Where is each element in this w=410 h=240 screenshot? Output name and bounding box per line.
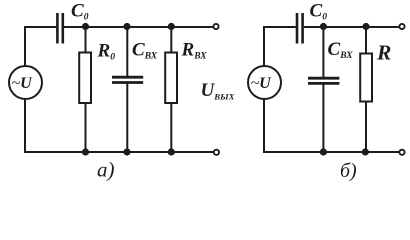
capacitor Cvx (right circuit): [308, 78, 339, 83]
wire: R branch bottom (right circuit): [365, 102, 367, 153]
node: junction top of R (right circuit): [362, 23, 369, 30]
wire: top wire left segment (source to C0): [24, 26, 57, 28]
terminal: top output (left circuit): [213, 24, 218, 29]
wire: top wire from C0 to top output terminal (right circuit): [304, 26, 399, 28]
wire: R branch top (right circuit): [365, 27, 367, 54]
wire: Cvx branch bottom (right circuit): [322, 84, 324, 152]
wire: Cvx branch top: [126, 27, 128, 78]
node: junction top of Cvx: [123, 23, 130, 30]
wire: Cvx branch top (right circuit): [322, 27, 324, 79]
svg-text:а): а): [97, 158, 115, 182]
svg-text:б): б): [340, 160, 357, 182]
node: junction bottom of R (right circuit): [362, 148, 369, 155]
terminal: bottom output (right circuit): [399, 150, 404, 155]
source U (right circuit): [248, 66, 281, 99]
node: junction bottom of R0: [82, 148, 89, 155]
wire: left vertical above source (right circuit): [263, 26, 265, 66]
wire: top wire from C0 to top output terminal: [64, 26, 213, 28]
source U (left circuit): [9, 66, 42, 99]
resistor R0: [79, 53, 91, 104]
node: junction bottom of Rvx: [168, 148, 175, 155]
wire: bottom wire (left circuit): [24, 151, 213, 153]
wire: Cvx branch bottom: [126, 83, 128, 152]
node: junction bottom of Cvx (right circuit): [320, 148, 327, 155]
capacitor Cvx (left circuit): [112, 77, 143, 82]
wire: left vertical below source: [24, 99, 26, 153]
node: junction top of Rvx: [168, 23, 175, 30]
svg-text:~U: ~U: [12, 75, 34, 92]
node: junction top of R0: [82, 23, 89, 30]
svg-text:R: R: [376, 41, 391, 65]
wire: Rvx branch top: [170, 27, 172, 53]
resistor R: [360, 54, 372, 102]
node: junction top of Cvx (right circuit): [320, 23, 327, 30]
terminal: top output (right circuit): [399, 24, 404, 29]
wire: left vertical above source: [24, 26, 26, 66]
wire: top wire left segment (source to C0, right circuit): [263, 26, 296, 28]
wire: R0 branch bottom: [85, 103, 87, 152]
svg-text:~U: ~U: [251, 75, 273, 92]
resistor Rvx: [165, 53, 177, 104]
node: junction bottom of Cvx: [123, 148, 130, 155]
wire: R0 branch top: [85, 27, 87, 53]
wire: left vertical below source (right circuit): [263, 99, 265, 153]
capacitor C0 (left circuit): [57, 13, 62, 44]
wire: bottom wire (right circuit): [263, 151, 399, 153]
wire: Rvx branch bottom: [170, 103, 172, 152]
capacitor C0 (right circuit): [297, 13, 303, 44]
terminal: bottom output (left circuit): [214, 150, 219, 155]
